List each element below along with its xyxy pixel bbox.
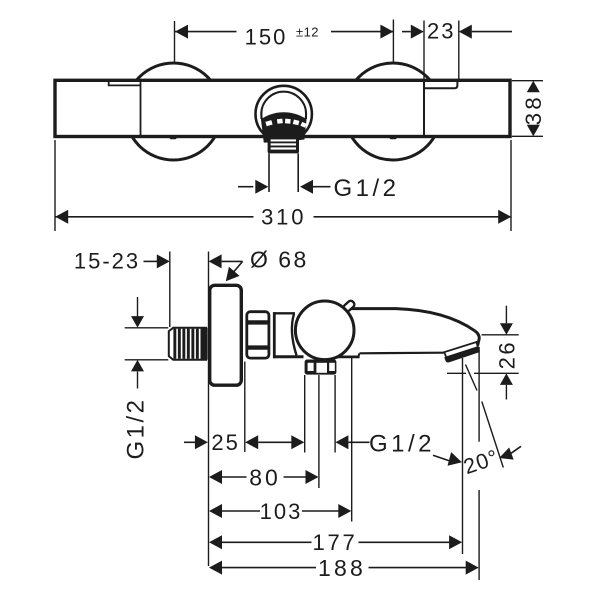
svg-text:38: 38 [521,94,546,125]
svg-text:G1/2: G1/2 [333,175,399,202]
svg-text:188: 188 [318,555,366,581]
svg-text:G1/2: G1/2 [369,431,435,458]
svg-text:80: 80 [249,464,281,490]
svg-text:G1/2: G1/2 [123,397,150,459]
svg-text:103: 103 [260,499,303,524]
svg-text:Ø: Ø [250,247,268,273]
svg-text:15-23: 15-23 [74,249,140,274]
svg-text:±12: ±12 [296,24,319,39]
svg-text:150: 150 [245,25,288,50]
svg-text:310: 310 [261,205,306,230]
svg-text:68: 68 [278,247,309,273]
svg-text:177: 177 [312,530,357,555]
svg-text:25: 25 [211,430,239,455]
svg-text:26: 26 [495,340,520,369]
svg-text:23: 23 [427,19,455,44]
